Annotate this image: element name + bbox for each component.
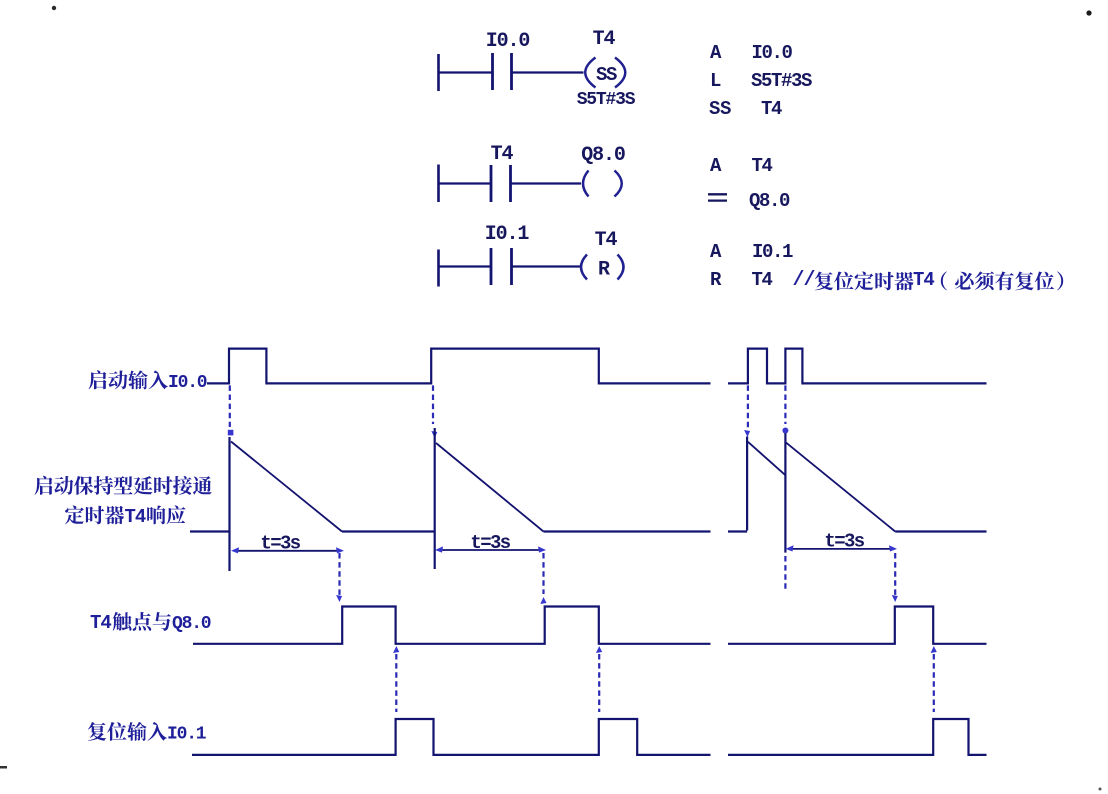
waveform I0.0 (row 1) — [207, 349, 987, 384]
label T4 (rung 3 coil) — [595, 229, 618, 252]
STL line: SS T4 — [709, 98, 782, 120]
STL line: A I0.1 — [710, 241, 793, 263]
dashed edge from I0.0 rise 3b — [782, 385, 788, 433]
label 复位输入I0.1 (row 4) — [88, 722, 207, 745]
timer ramp 3b vertical — [784, 433, 786, 590]
contact I0.0 — [493, 53, 512, 90]
label I0.1 (rung 3 contact) — [485, 223, 530, 246]
contact T4 — [491, 165, 511, 202]
rung 3 left power rail — [437, 250, 440, 287]
svg-text:T4: T4 — [593, 28, 616, 51]
label T4 (rung 1 coil) — [593, 28, 616, 51]
label 启动保持型延时接通 (row 2 line 1) — [35, 476, 212, 495]
STL line: L S5T#3S — [710, 70, 812, 92]
coil T4 (R) reset — [581, 255, 624, 282]
svg-text:t=3s: t=3s — [260, 533, 300, 555]
dashed drop to Q8.0 rise 3 — [892, 553, 898, 602]
svg-text:SS: SS — [596, 64, 617, 86]
svg-text:t=3s: t=3s — [824, 531, 864, 553]
svg-text:T4: T4 — [125, 506, 146, 528]
STL line: R T4 — [710, 269, 773, 291]
timer ramp 1 diagonal — [231, 442, 342, 532]
svg-text:S5T#3S: S5T#3S — [577, 90, 636, 110]
svg-text:I0.1: I0.1 — [752, 241, 793, 263]
dashed drop to Q8.0 rise 1 — [336, 553, 342, 602]
dashed reset connector 2 — [596, 646, 602, 712]
svg-text:T4: T4 — [752, 269, 773, 291]
dimension t=3s (group 1) — [231, 533, 344, 555]
svg-text://: // — [793, 269, 816, 292]
timer ramp 3b diagonal — [785, 442, 895, 531]
square marker node (ramp 1 top) — [228, 430, 234, 436]
STL line: = Q8.0 — [708, 190, 790, 212]
dashed reset connector 3 — [931, 646, 937, 712]
dashed reset connector 1 — [393, 646, 399, 712]
svg-text:I0.0: I0.0 — [486, 30, 530, 53]
rung 2 wire — [438, 182, 581, 184]
rung 2 left power rail — [437, 165, 440, 203]
dashed edge from I0.0 rise 1 — [229, 385, 231, 427]
label I0.0 (rung 1 contact) — [486, 30, 530, 53]
STL line: A T4 — [710, 155, 773, 177]
svg-text:T4: T4 — [90, 612, 111, 634]
svg-text:Q8.0: Q8.0 — [172, 614, 211, 634]
timer ramp 2 vertical — [434, 428, 436, 569]
svg-text:T4: T4 — [752, 155, 773, 177]
svg-text:T4: T4 — [761, 98, 782, 120]
timer ramp 3a diagonal (cut short) — [748, 442, 786, 475]
label 启动输入I0.0 (row 1) — [89, 370, 207, 393]
dashed edge from I0.0 rise 3a — [744, 385, 750, 437]
svg-text:R: R — [598, 259, 610, 282]
coil Q8.0 — [583, 171, 622, 197]
STL comment //复位定时器T4（必须有复位） — [793, 269, 1064, 292]
svg-text:Q8.0: Q8.0 — [749, 190, 790, 212]
label T4 (rung 2 contact) — [491, 143, 514, 166]
svg-text:t=3s: t=3s — [470, 532, 510, 554]
waveform T4/Q8.0 (row 3) — [193, 607, 987, 644]
rung 1 left power rail — [437, 54, 440, 91]
value S5T#3S (timer preset) — [577, 90, 636, 110]
coil T4 (SS) — [585, 58, 625, 88]
svg-text:I0.1: I0.1 — [167, 725, 207, 745]
dashed edge from I0.0 rise 2 — [431, 385, 437, 438]
label Q8.0 (rung 2 coil) — [581, 144, 625, 167]
svg-text:T4: T4 — [491, 143, 514, 166]
dimension t=3s (group 3) — [786, 531, 898, 553]
waveform I0.1 (row 4) — [192, 719, 987, 755]
timer response baseline (row 2) — [190, 530, 987, 532]
svg-text:I0.0: I0.0 — [168, 373, 207, 393]
svg-text:T4: T4 — [913, 269, 934, 291]
label T4触点与Q8.0 (row 3) — [90, 612, 211, 634]
timer ramp 2 diagonal — [436, 443, 544, 532]
svg-text:Q8.0: Q8.0 — [581, 144, 625, 167]
dimension t=3s (group 2) — [435, 532, 546, 554]
timer ramp 1 vertical — [228, 437, 230, 571]
svg-text:SS: SS — [709, 98, 731, 120]
contact I0.1 — [491, 248, 512, 285]
STL line: A I0.0 — [710, 42, 793, 64]
dashed drop to Q8.0 rise 2 — [540, 553, 546, 604]
rung 1 wire — [438, 71, 584, 73]
timer ramp 3a vertical — [746, 437, 748, 531]
svg-text:L: L — [710, 70, 721, 92]
svg-text:S5T#3S: S5T#3S — [751, 70, 812, 92]
label 定时器T4响应 (row 2 line 2) — [65, 505, 186, 528]
svg-text:I0.0: I0.0 — [752, 42, 793, 64]
svg-text:T4: T4 — [595, 229, 618, 252]
rung 3 wire — [438, 265, 580, 267]
svg-text:I0.1: I0.1 — [485, 223, 530, 246]
